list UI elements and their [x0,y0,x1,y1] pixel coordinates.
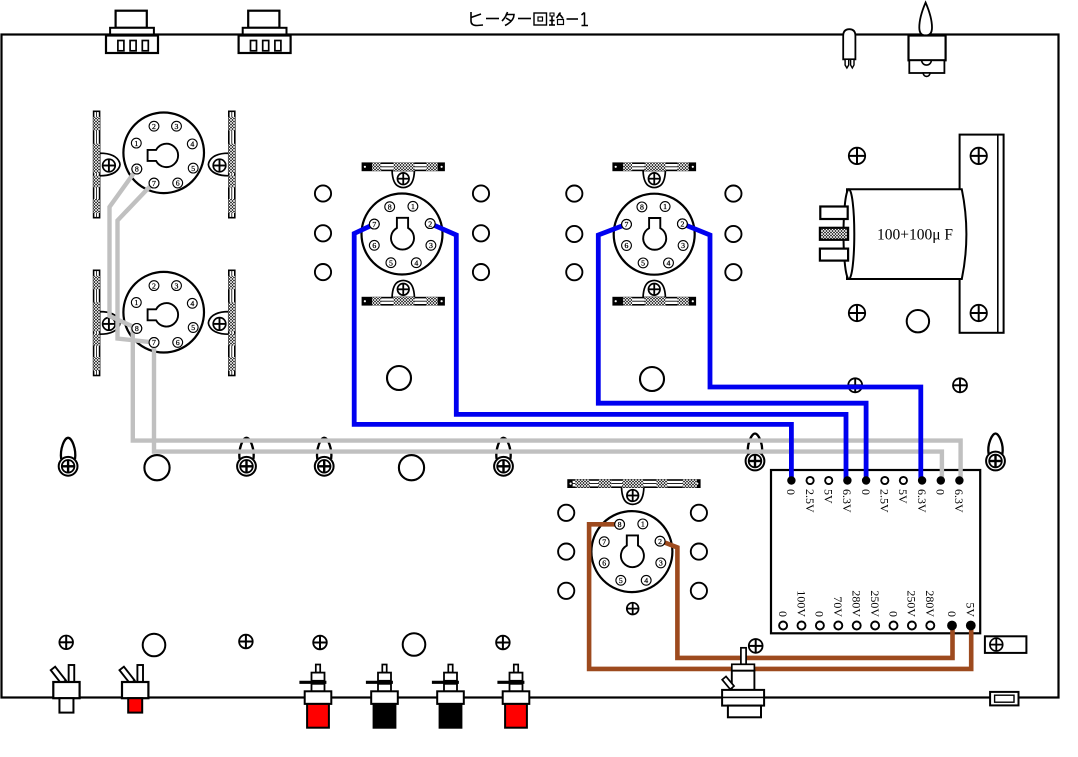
svg-text:250V: 250V [905,590,919,617]
svg-text:6: 6 [372,241,376,250]
svg-text:7: 7 [602,537,606,546]
terminal strip above V4 [613,163,695,188]
hole (below capacitor) [907,310,929,332]
svg-text:6.3V: 6.3V [952,489,966,513]
capacitor C1 100+100uF [844,189,967,279]
svg-text:8: 8 [135,165,139,174]
title text: heater circuit - 1 [471,12,588,26]
svg-text:280V: 280V [923,590,937,617]
svg-text:5V: 5V [964,602,978,617]
svg-text:4: 4 [190,299,194,308]
svg-text:8: 8 [618,520,622,529]
screw (bracket top) [971,148,987,164]
hole (mid row left) [144,455,169,480]
cable clamp 4 [494,438,513,476]
pilot lamp holder (small, top edge) [843,29,855,68]
svg-text:6.3V: 6.3V [915,489,929,513]
screw near terminal box (left) [848,378,862,392]
fuse holder (bottom edge) [990,692,1018,706]
capacitor mounting bracket [960,135,1004,333]
svg-text:3: 3 [175,281,179,290]
svg-text:5: 5 [641,259,645,268]
socket V4 side holes [566,186,741,281]
svg-text:2.5V: 2.5V [803,489,817,513]
screw (bottom row 4) [496,636,510,650]
svg-text:5: 5 [191,164,195,173]
svg-text:6: 6 [625,241,629,250]
svg-text:0: 0 [784,489,798,495]
screw (bottom row 3) [313,636,327,650]
svg-text:3: 3 [681,241,685,250]
svg-text:100V: 100V [794,590,808,617]
binding post J1 (red) [299,665,331,728]
svg-text:1: 1 [134,298,138,307]
wire: heater blue from V4 pin7 to 0 terminal [598,224,866,479]
svg-text:250V: 250V [868,590,882,617]
hole below V4 [640,367,664,391]
svg-text:2: 2 [152,281,156,290]
svg-text:1: 1 [663,202,667,211]
wire: heater brown from V5 pin8 to 5V terminal [589,524,971,669]
tube socket V2 (octal, bottom view) [123,272,204,353]
terminal strip left of V1 [93,111,120,217]
cable clamp 5 [746,434,765,471]
svg-text:3: 3 [659,559,663,568]
screw (bottom row 2) [239,635,253,649]
power transformer terminal box [771,470,980,633]
svg-text:4: 4 [414,258,418,267]
svg-text:5: 5 [389,258,393,267]
svg-text:7: 7 [372,220,376,229]
svg-text:0: 0 [934,489,948,495]
svg-text:2: 2 [658,537,662,546]
svg-text:280V: 280V [850,590,864,617]
terminal box terminals (bottom row) [779,621,976,631]
screw near terminal box (right) [953,378,967,392]
screw (bottom row 1) [59,636,73,650]
svg-text:0: 0 [776,611,790,617]
terminal strip above V3 [362,163,444,188]
svg-text:2: 2 [680,220,684,229]
svg-text:0: 0 [945,611,959,617]
cable clamp 6 [986,434,1005,471]
svg-text:5V: 5V [822,489,836,504]
transformer T1 [106,11,158,53]
svg-text:7: 7 [152,338,156,347]
terminal labels (bottom row) [776,590,978,617]
power switch (rotary, bottom edge) [722,648,764,718]
binding post J4 (red) [497,665,529,728]
solder lug strip (bottom right) [985,636,1027,653]
terminal strip above V5 [568,480,700,505]
terminal labels (top row) [784,489,966,513]
socket V3 side holes [315,185,489,280]
screw (below V5) [627,603,639,615]
cable clamp 2 [237,438,256,476]
svg-text:0: 0 [859,489,873,495]
svg-text:5: 5 [191,323,195,332]
terminal strip right of V1 [208,111,235,217]
screw (near power switch) [749,639,763,653]
toggle switch S1 (white) [51,665,80,713]
binding post J3 (black) [432,665,464,728]
tube socket V4 (9-pin style, bottom view) [614,194,695,275]
terminal strip right of V2 [208,270,235,375]
svg-text:5V: 5V [896,489,910,504]
svg-text:4: 4 [644,576,648,585]
svg-text:6.3V: 6.3V [840,489,854,513]
hole (bottom row 2) [403,633,426,656]
svg-text:6: 6 [176,338,180,347]
screw (left of bracket, top) [849,148,865,164]
svg-text:0: 0 [813,611,827,617]
wire: heater blue from V3 pin2 to 6.3V terminal [430,224,846,479]
svg-text:2.5V: 2.5V [878,489,892,513]
svg-text:1: 1 [134,139,138,148]
svg-text:7: 7 [625,220,629,229]
tube socket V3 (9-pin style, bottom view) [362,194,443,275]
tube socket V1 (octal, bottom view) [123,113,204,194]
svg-text:8: 8 [135,324,139,333]
svg-text:6: 6 [602,559,606,568]
screw (left of bracket, bottom) [849,305,865,321]
terminal strip below V3 [362,280,444,305]
hole (mid row centre) [399,455,424,480]
power cord / antenna terminal (top edge) [909,3,946,77]
svg-text:70V: 70V [831,596,845,617]
screw (bracket bottom) [971,305,987,321]
svg-text:100+100μ F: 100+100μ F [877,227,953,244]
svg-text:2: 2 [428,219,432,228]
svg-text:1: 1 [411,202,415,211]
cable clamp 1 [59,438,78,476]
svg-text:7: 7 [152,179,156,188]
wire: heater gray from V1 pin7 via V2 pin7 to 0 terminal [118,183,942,479]
svg-text:4: 4 [190,140,194,149]
svg-text:6: 6 [176,179,180,188]
wire: heater gray from V1 pin8 via V2 pin8 to 6.3V terminal [110,169,961,479]
hole below V3 [387,366,411,390]
pin labels redrawn over wires [132,164,687,546]
svg-text:8: 8 [388,202,392,211]
svg-text:1: 1 [641,520,645,529]
terminal box terminals (top row) [787,476,963,484]
socket V5 side holes [558,505,707,599]
svg-text:2: 2 [152,122,156,131]
wire: heater brown from V5 pin2 to 0 terminal [660,541,953,658]
transformer T2 [239,11,291,53]
svg-text:0: 0 [886,611,900,617]
svg-text:8: 8 [640,203,644,212]
terminal strip left of V2 [93,270,120,375]
wire: heater blue from V4 pin2 to 6.3V terminal [682,224,920,479]
cable clamp 3 [315,438,334,476]
svg-text:3: 3 [175,122,179,131]
binding post J2 (black) [366,665,398,728]
svg-text:5: 5 [619,576,623,585]
svg-text:3: 3 [429,241,433,250]
tube socket V5 (9-pin style, bottom view) [591,511,672,592]
wire: heater blue from V3 pin7 to 0 terminal [354,224,791,479]
hole (bottom row 1) [143,634,166,657]
svg-text:4: 4 [667,259,671,268]
capacitor C1 terminals [820,207,848,261]
terminal strip below V4 [613,280,695,305]
toggle switch S2 (red) [119,665,148,713]
